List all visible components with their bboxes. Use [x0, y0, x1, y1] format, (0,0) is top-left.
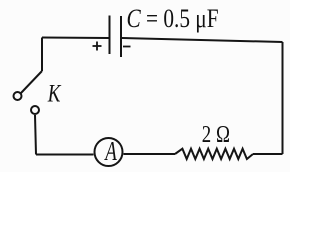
svg-text:K: K	[47, 79, 62, 107]
svg-text:2 Ω: 2 Ω	[202, 121, 230, 148]
svg-text:C = 0.5 μF: C = 0.5 μF	[127, 5, 219, 34]
svg-text:A: A	[104, 137, 118, 167]
